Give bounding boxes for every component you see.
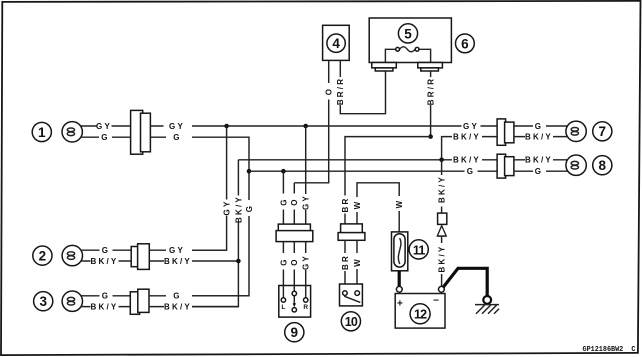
circled label 11 — [409, 240, 428, 259]
svg-text:G: G — [245, 204, 254, 212]
wire BR below connector 10 — [341, 240, 350, 290]
svg-text:BK/Y: BK/Y — [438, 175, 447, 203]
svg-text:GY: GY — [302, 254, 311, 270]
svg-text:GY: GY — [96, 122, 112, 131]
junction dot BK/Y x441.6 — [439, 158, 444, 163]
svg-text:G: G — [279, 197, 288, 205]
junction dot BR/R x430.6 — [428, 134, 433, 139]
svg-text:1: 1 — [38, 125, 46, 140]
junction dot G x283.4 — [281, 169, 286, 174]
svg-text:W: W — [353, 257, 362, 267]
svg-text:GY: GY — [223, 200, 232, 216]
wire BK/Y lamp8 right — [514, 156, 568, 165]
svg-text:4: 4 — [332, 36, 340, 51]
svg-text:GY: GY — [169, 246, 185, 255]
svg-text:G: G — [102, 246, 110, 255]
wire W below connector 10 — [353, 240, 362, 290]
svg-text:L: L — [281, 304, 285, 311]
wire G lamp2 — [80, 246, 131, 255]
svg-text:BR/R: BR/R — [336, 77, 345, 105]
relay box 5 with fuse — [369, 18, 451, 71]
svg-text:G: G — [101, 133, 109, 142]
battery terminal positive — [396, 286, 402, 292]
svg-text:G: G — [535, 167, 543, 176]
wire GY below connector 9 — [302, 242, 311, 286]
wire BK/Y lamp2 — [80, 257, 131, 266]
svg-text:7: 7 — [599, 124, 607, 139]
wire O down to connector 9 — [290, 183, 299, 224]
svg-text:BK/Y: BK/Y — [164, 257, 192, 266]
horn switch box 10 — [340, 284, 363, 306]
connector J2 — [131, 244, 149, 270]
svg-text:9: 9 — [291, 325, 299, 340]
svg-text:BR/R: BR/R — [427, 77, 436, 105]
svg-text:BK/Y: BK/Y — [91, 302, 119, 311]
svg-text:BK/Y: BK/Y — [91, 257, 119, 266]
diode D1 — [437, 226, 446, 237]
svg-text:BK/Y: BK/Y — [453, 132, 481, 141]
vertical wire GY branch to turn signal switch — [192, 126, 232, 250]
svg-text:BK/Y: BK/Y — [453, 156, 481, 165]
svg-text:−: − — [433, 296, 439, 307]
svg-text:BK/Y: BK/Y — [164, 302, 192, 311]
circled label 8 — [593, 156, 612, 175]
connector J3 — [130, 289, 149, 314]
svg-text:BK/Y: BK/Y — [525, 156, 553, 165]
wire BR/R from relay right tab — [427, 71, 436, 137]
lamp bulb 2 — [62, 245, 82, 265]
wire G lamp1 to connector — [80, 133, 130, 142]
circled label 10 — [341, 312, 360, 331]
svg-text:BK/Y: BK/Y — [525, 132, 553, 141]
wire G lamp7 right — [514, 122, 568, 131]
svg-text:10: 10 — [345, 315, 358, 329]
wire W to fuse 11 — [395, 199, 404, 232]
wire G from lamp1 turning down — [150, 133, 249, 171]
vertical wire BK/Y branch — [192, 160, 243, 307]
lamp bulb 3 — [62, 291, 82, 311]
wire GY lamp2 to GY branch — [149, 246, 226, 255]
connector J8 — [497, 154, 514, 178]
thick wire battery negative to ground — [443, 268, 488, 295]
turn signal switch box 9 — [279, 286, 311, 318]
svg-text:GP12186BW2 C: GP12186BW2 C — [583, 346, 636, 354]
svg-text:8: 8 — [599, 158, 607, 173]
lamp bulb 8 — [566, 155, 586, 175]
wire GY main run (node A) — [150, 122, 497, 131]
svg-text:W: W — [353, 200, 362, 210]
connector J1 — [131, 110, 151, 154]
circled label 9 — [285, 323, 304, 342]
junction dot GY x305.7 — [303, 124, 308, 129]
svg-text:BK/Y: BK/Y — [234, 195, 243, 223]
svg-text:R: R — [303, 304, 308, 311]
battery 12 — [395, 294, 445, 329]
svg-text:G: G — [279, 257, 288, 265]
wire BK/Y from lamps to diode — [438, 160, 447, 213]
junction dot G x249 — [247, 169, 252, 174]
circled label 1 — [32, 122, 51, 141]
diode connector box — [438, 213, 447, 224]
circled label 7 — [593, 122, 612, 141]
wire G below connector 9 — [279, 242, 288, 286]
svg-text:GY: GY — [302, 194, 311, 210]
svg-text:G: G — [173, 292, 181, 301]
wire BK/Y row to right lamps — [238, 156, 497, 165]
component box 4 — [323, 25, 350, 60]
svg-text:W: W — [395, 199, 404, 209]
svg-text:G: G — [102, 292, 110, 301]
circled label 2 — [33, 246, 52, 265]
junction dot BK/Y x238.4 — [236, 259, 241, 264]
connector J9 inline — [276, 224, 313, 242]
wire G down to connector 9 — [279, 171, 288, 224]
wire BR from switch up to relay — [341, 137, 431, 224]
svg-text:+: + — [397, 298, 403, 309]
lamp bulb 7 — [566, 121, 586, 141]
wire BK/Y lamp2 to BK/Y branch — [149, 257, 238, 266]
wire G lamp8 right — [514, 167, 568, 176]
wire O below connector 9 — [290, 242, 299, 286]
wire BR/R from component 4 — [336, 60, 385, 113]
thick wire battery positive from fuse — [398, 271, 401, 288]
wire GY down to connector 9 — [302, 126, 311, 224]
connector J7 — [497, 119, 514, 145]
wire O from component 4 — [294, 60, 333, 182]
svg-text:2: 2 — [39, 249, 47, 264]
circled label 3 — [34, 292, 53, 311]
connector J10 inline — [338, 224, 365, 240]
svg-text:O: O — [290, 197, 299, 205]
lamp bulb 1 — [62, 122, 82, 142]
wire G lamp3 — [80, 292, 130, 301]
svg-text:3: 3 — [39, 294, 47, 309]
wire BK/Y lamp7 right — [514, 132, 568, 141]
wire BK/Y from diode to battery negative — [438, 237, 447, 287]
circled label 6 — [456, 34, 475, 53]
wire BK/Y lamp3 to BK/Y branch — [149, 302, 238, 311]
svg-text:12: 12 — [414, 308, 427, 322]
wire W bracket from switch to fuse — [353, 183, 399, 224]
wire BK/Y lamp7 bracket — [442, 132, 498, 159]
battery terminal negative — [439, 286, 445, 292]
svg-text:6: 6 — [461, 36, 469, 51]
svg-text:5: 5 — [404, 26, 412, 41]
svg-text:O: O — [290, 257, 299, 265]
svg-text:BK/Y: BK/Y — [438, 245, 447, 273]
wire G row to right lamps — [249, 167, 497, 176]
svg-text:GY: GY — [169, 122, 185, 131]
svg-text:BR: BR — [341, 197, 350, 213]
wire G lamp3 to G branch — [149, 292, 249, 301]
vertical wire G branch — [192, 171, 254, 296]
svg-text:O: O — [325, 87, 334, 95]
wire GY lamp1 to connector — [80, 122, 130, 131]
svg-text:G: G — [173, 133, 181, 142]
wire BK/Y lamp3 — [80, 302, 130, 311]
svg-text:11: 11 — [413, 243, 425, 257]
svg-text:G: G — [535, 122, 543, 131]
fuse 11 — [392, 232, 408, 271]
svg-text:GY: GY — [463, 122, 479, 131]
junction dot GY x226.6 — [224, 124, 229, 129]
ground symbol — [475, 296, 499, 314]
svg-text:BR: BR — [341, 254, 350, 270]
svg-text:G: G — [467, 167, 475, 176]
